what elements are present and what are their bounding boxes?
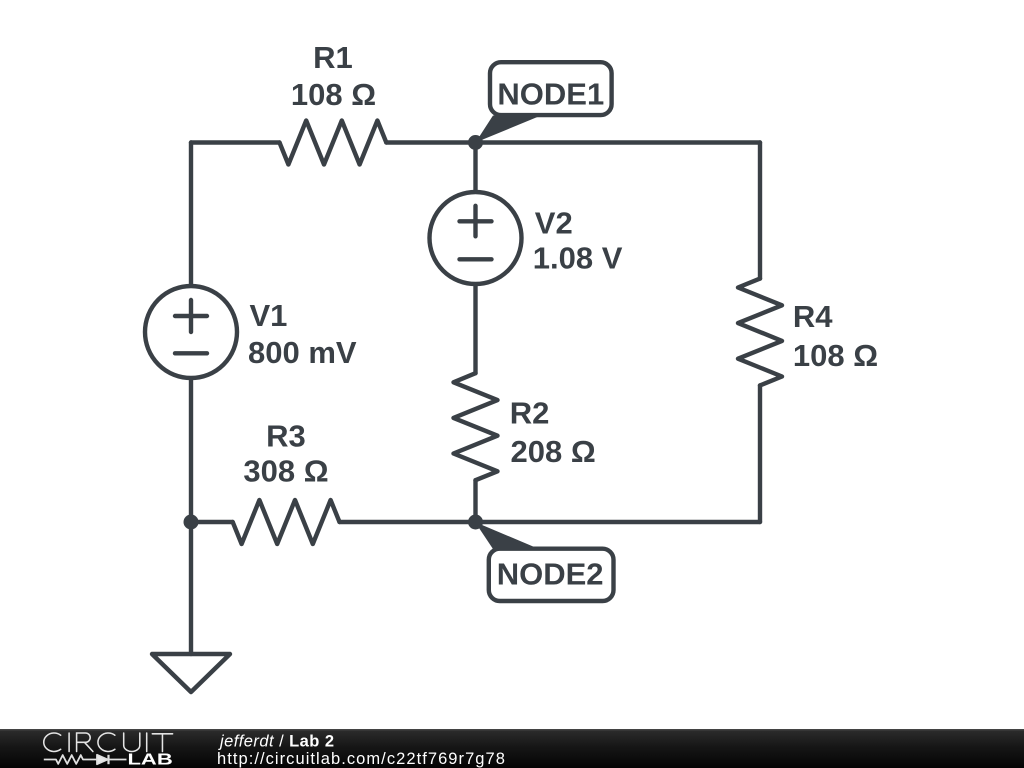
- wire V1 bottom to bottom-left junction: [189, 378, 193, 522]
- svg-text:208 Ω: 208 Ω: [511, 434, 596, 469]
- wire junction to ground: [189, 522, 193, 654]
- resistor R2: [454, 373, 498, 480]
- logo schematic squiggle (resistor + diode): [44, 755, 127, 764]
- svg-text:R4: R4: [793, 299, 833, 334]
- wire R3 to NODE2: [340, 520, 476, 524]
- voltage source V2: [430, 192, 522, 284]
- svg-text:R2: R2: [510, 395, 550, 430]
- svg-text:108 Ω: 108 Ω: [793, 338, 878, 373]
- wire right vertical top (corner to R4): [758, 143, 762, 279]
- wire left vertical (top corner to V1 top): [189, 143, 193, 287]
- wire top (corner to R1): [191, 140, 280, 144]
- svg-text:1.08 V: 1.08 V: [533, 241, 623, 276]
- node junction dot bottom-left: [184, 515, 199, 530]
- voltage source V1: [145, 286, 237, 378]
- wire NODE1 to top-right corner: [476, 140, 761, 144]
- label V1 value: [248, 298, 357, 370]
- label R4 value: [793, 299, 878, 373]
- node junction dot NODE2: [468, 515, 483, 530]
- svg-text:http://circuitlab.com/c22tf769: http://circuitlab.com/c22tf769r7g78: [217, 750, 506, 768]
- node junction dot NODE1: [468, 135, 483, 150]
- resistor R4: [738, 279, 782, 386]
- svg-text:LAB: LAB: [128, 751, 173, 768]
- logo CIRCUIT word: [44, 733, 173, 752]
- svg-text:R1: R1: [313, 40, 353, 75]
- label V2 value: [533, 206, 623, 276]
- svg-text:jefferdt / Lab 2: jefferdt / Lab 2: [218, 733, 335, 751]
- svg-text:NODE1: NODE1: [497, 76, 604, 111]
- label R3 value: [243, 418, 328, 488]
- svg-text:V2: V2: [535, 206, 573, 241]
- svg-text:V1: V1: [250, 298, 288, 333]
- ground: [152, 654, 230, 692]
- node A callout NODE1: [476, 62, 612, 142]
- node B callout NODE2: [475, 522, 614, 601]
- svg-text:108 Ω: 108 Ω: [291, 77, 376, 112]
- svg-text:R3: R3: [266, 418, 306, 453]
- wire junction to R3: [191, 520, 233, 524]
- wire V2 bottom to R2: [473, 284, 477, 373]
- svg-text:308 Ω: 308 Ω: [243, 454, 328, 489]
- label R1 value: [291, 40, 376, 112]
- wire NODE1 to V2 top: [473, 143, 477, 193]
- svg-text:NODE2: NODE2: [497, 557, 604, 592]
- wire right vertical bottom (R4 to corner): [758, 385, 762, 522]
- resistor R1: [280, 121, 387, 165]
- resistor R3: [233, 500, 340, 544]
- wire R1 to NODE1: [386, 140, 475, 144]
- svg-text:800 mV: 800 mV: [248, 335, 357, 370]
- wire bottom right (NODE2 to corner): [476, 520, 761, 524]
- label R2 value: [510, 395, 596, 469]
- wire R2 to NODE2: [473, 480, 477, 522]
